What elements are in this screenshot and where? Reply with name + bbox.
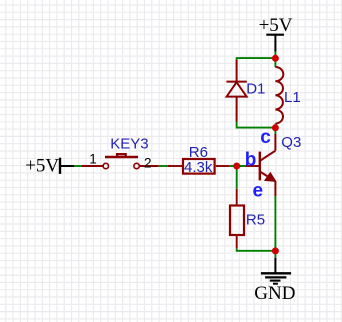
svg-text:b: b [245, 149, 257, 170]
wire (base node down to R5) [236, 166, 238, 189]
pushbutton KEY3 [82, 154, 159, 169]
junction (ground node) [272, 247, 279, 254]
wire (ground node to ground symbol) [274, 251, 276, 258]
wire (emitter down to ground node) [274, 196, 276, 251]
wire (R5 bottom to ground node) [237, 248, 276, 250]
power port +5V (left) [25, 156, 74, 177]
wire (top rail to diode branch) [237, 58, 276, 60]
junction (collector node) [272, 124, 279, 131]
resistor R5 [230, 189, 244, 249]
power port +5V (top) [259, 15, 293, 51]
transistor Q3 [245, 134, 276, 196]
junction (top node) [272, 55, 279, 62]
svg-text:L1: L1 [284, 89, 301, 106]
resistor R6 [168, 159, 229, 174]
svg-text:+5V: +5V [25, 156, 59, 177]
svg-text:+5V: +5V [259, 15, 293, 36]
svg-text:e: e [253, 181, 264, 202]
svg-text:GND: GND [254, 283, 295, 304]
wire (diode bottom to lower junction) [237, 122, 276, 128]
wire (R6 to base node) [229, 165, 245, 167]
inductor L1 [275, 58, 283, 127]
ground GND [254, 258, 295, 304]
svg-text:1: 1 [89, 152, 97, 167]
svg-text:2: 2 [144, 156, 152, 171]
svg-text:Q3: Q3 [281, 134, 301, 151]
svg-text:4.3k: 4.3k [184, 159, 213, 176]
svg-text:R5: R5 [246, 211, 265, 228]
diode D1 [226, 60, 246, 122]
wire (collector junction to collector pin) [274, 128, 276, 135]
svg-text:KEY3: KEY3 [110, 136, 148, 153]
wire (top power to junction) [274, 52, 276, 59]
wire (KEY3 pin 2 to R6) [159, 165, 168, 167]
wire (power to KEY3 pin 1) [74, 165, 82, 167]
junction (base node) [233, 163, 240, 170]
svg-text:c: c [260, 127, 271, 148]
svg-text:D1: D1 [246, 81, 265, 98]
